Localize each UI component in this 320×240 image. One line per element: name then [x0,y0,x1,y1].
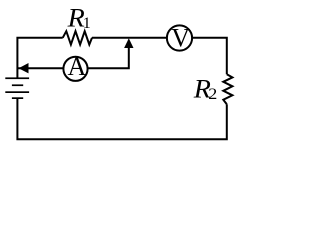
wire R1 to voltmeter [92,37,167,39]
ammeter U1 circle [63,57,87,81]
voltmeter U2 circle [167,25,192,50]
wire voltmeter to top-right corner, down to R2 [192,38,227,75]
resistor R1 [63,31,92,44]
wire R2 down, bottom wire, up to battery bottom [17,98,226,139]
battery B1 plate short bottom [12,97,23,99]
battery B1 plate short [12,84,23,86]
wire top-left (battery to R1) [17,38,62,79]
current arrow left (into node) [19,63,29,73]
svg-text:V: V [171,24,190,53]
svg-text:2: 2 [208,85,217,103]
battery B1 plate long [5,91,29,93]
ammeter branch wire (left wire to ammeter) [17,67,63,69]
current arrow up (junction node) [124,38,133,48]
resistor R2 [223,74,232,104]
battery B1 plate long top [5,77,29,79]
svg-text:A: A [67,52,86,81]
svg-text:1: 1 [83,15,91,32]
wire ammeter to junction riser [88,44,129,68]
